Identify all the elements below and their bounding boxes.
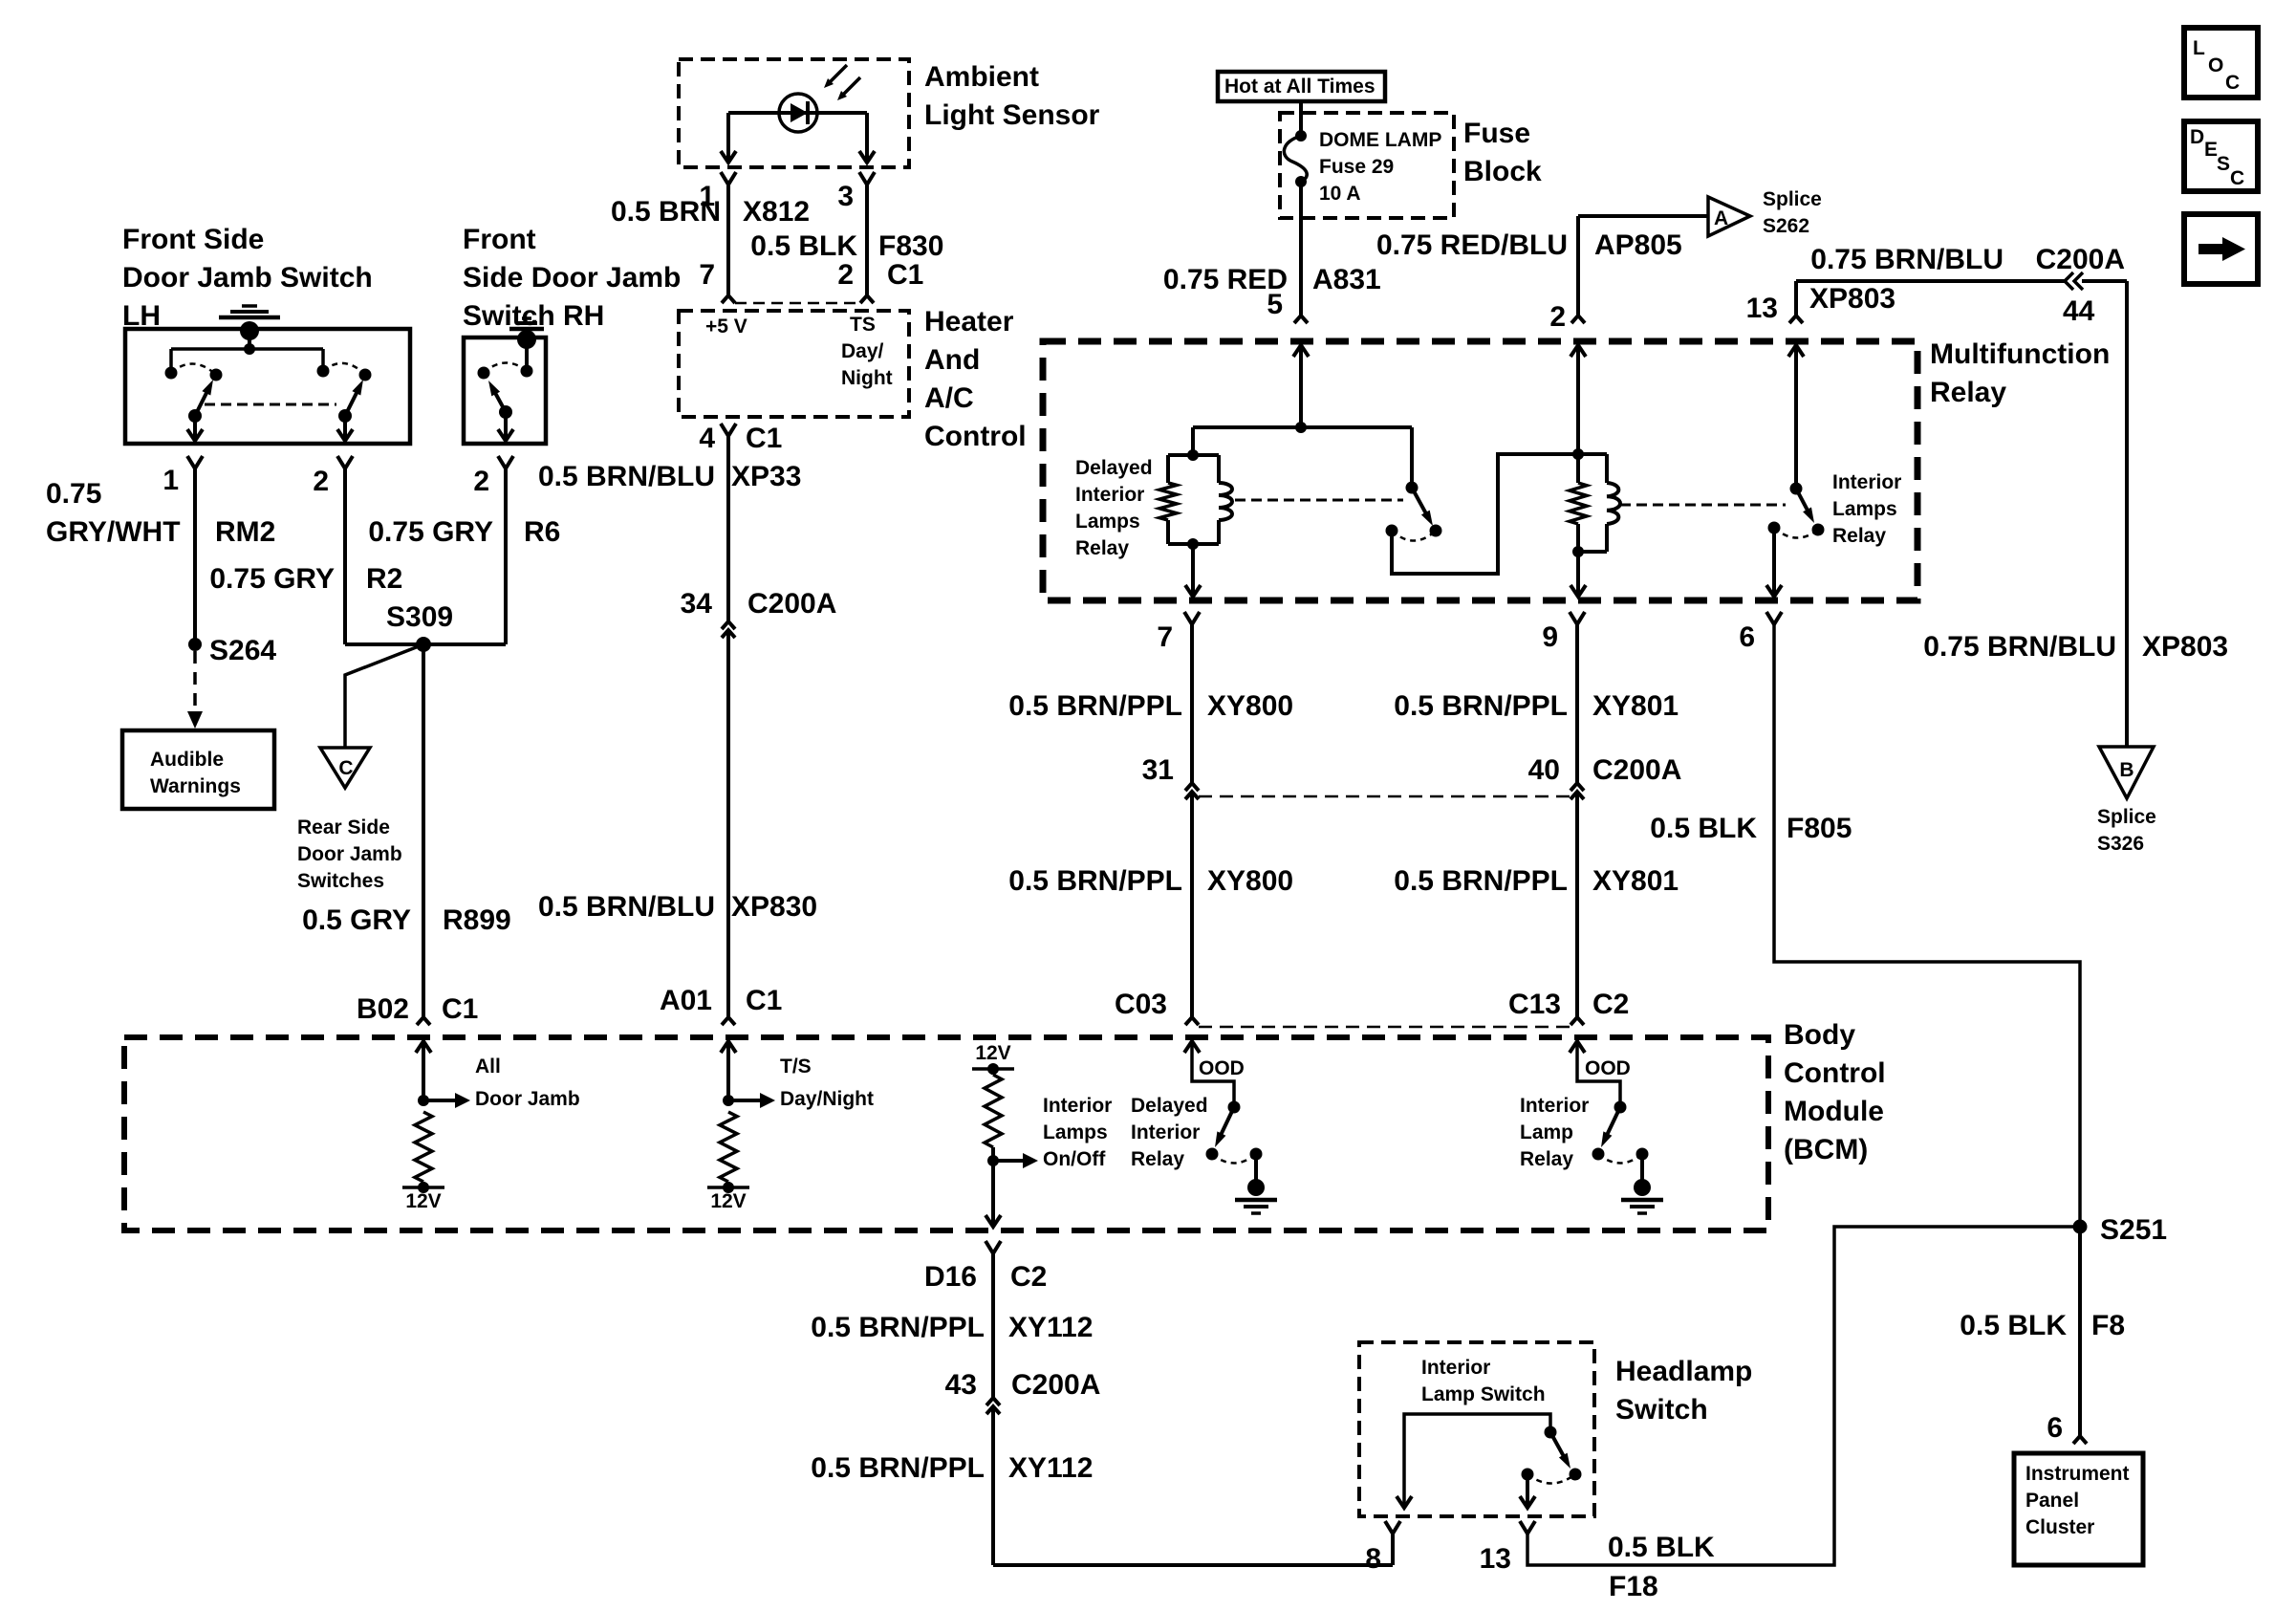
svg-text:0.5 BRN/PPL: 0.5 BRN/PPL [811,1452,985,1484]
svg-text:C200A: C200A [1011,1369,1100,1401]
svg-text:A831: A831 [1312,264,1381,295]
svg-text:C: C [2225,72,2240,94]
pin 5 arrow inside relay [1293,345,1309,357]
switch SW-K2 arm [1796,489,1809,512]
photodiode D1 [728,111,867,115]
svg-text:F8: F8 [2091,1310,2125,1341]
wire S309 bus [345,642,506,646]
svg-text:Relay: Relay [1131,1148,1184,1170]
relay K1 coil bottom wires [1166,520,1170,544]
svg-text:C1: C1 [746,985,782,1016]
wire XY801 upper [1575,624,1579,783]
svg-text:C03: C03 [1115,989,1167,1020]
resistor R-K2 [1576,454,1580,483]
node K2 feed junction [1572,448,1584,460]
svg-text:S: S [2217,153,2230,175]
switch HS throw arc [1527,1474,1575,1484]
svg-text:S264: S264 [209,635,276,666]
svg-text:0.5 BLK: 0.5 BLK [1608,1532,1715,1563]
pin C13 C2 at BCM [1570,1017,1584,1025]
wire XP830 [726,630,730,1017]
pin A01 C1 at BCM [722,1017,735,1025]
pin D16 C2 below BCM [986,1241,1001,1253]
ground G4 inside BCM [1640,1154,1644,1183]
signal arrow Interior Lamps On/Off [993,1159,1025,1163]
svg-text:12V: 12V [710,1190,746,1212]
pin 3 sensor [859,172,875,185]
component box Multifunction Relay [1043,341,1917,600]
legend box next-page arrow [2184,214,2258,284]
svg-text:6: 6 [1739,621,1755,653]
switch OOD1 contacts [1206,1148,1219,1161]
resistor R-K1 [1159,483,1177,520]
node Interior Lamps On/Off junction [987,1155,999,1166]
svg-text:10 A: 10 A [1319,183,1361,205]
svg-text:XP803: XP803 [1809,283,1895,315]
wire sensor left leg [726,113,730,160]
svg-text:Door Jamb: Door Jamb [475,1088,580,1110]
wire to splice B [2082,279,2127,283]
switch box S_RH [464,337,546,444]
svg-text:2: 2 [1549,301,1566,333]
svg-text:A: A [1714,207,1728,229]
pin 2 LH [337,456,353,468]
internal 12V source B02 [402,1186,444,1189]
off-page triangle C [320,748,370,788]
switch SW-RH contacts [521,365,533,378]
svg-text:0.5 GRY: 0.5 GRY [302,904,411,936]
pin 2 arrow inside relay [1570,345,1586,357]
svg-text:0.75: 0.75 [46,478,101,510]
switch HS pivot [1545,1426,1557,1439]
svg-text:F18: F18 [1609,1571,1658,1602]
switch HS contacts [1570,1469,1582,1481]
wire F18 [1527,1227,2073,1565]
svg-text:Heater: Heater [924,306,1014,337]
light arrows into photodiode [828,65,847,84]
switch HS output wire [1526,1474,1529,1505]
component box Heater And A/C Control [679,311,909,417]
svg-text:+5 V: +5 V [705,316,747,337]
pin 6 instrument panel cluster [2073,1436,2087,1444]
svg-text:Interior: Interior [1075,484,1144,506]
wire XY800 upper [1190,624,1194,783]
pin 7 heater [722,295,735,303]
svg-text:Light Sensor: Light Sensor [924,99,1100,131]
svg-text:XY800: XY800 [1207,865,1293,897]
component box Ambient Light Sensor [679,59,909,167]
pin 13 at relay [1789,316,1803,323]
wire XY112 lower [991,1406,995,1565]
svg-text:Night: Night [841,367,893,389]
svg-text:C1: C1 [746,423,782,454]
svg-text:Block: Block [1463,156,1542,187]
node A01 junction [723,1095,734,1106]
svg-text:Hot at All Times: Hot at All Times [1224,76,1375,98]
switch OOD2 contacts [1592,1148,1605,1161]
internal 12V source A01 [707,1186,749,1189]
coil K2 Interior Lamps Relay [1578,452,1607,456]
svg-text:0.5 BRN/PPL: 0.5 BRN/PPL [1394,865,1568,897]
svg-text:XY800: XY800 [1207,690,1293,722]
wire RH ground stub [525,339,529,371]
svg-text:Body: Body [1784,1019,1855,1051]
svg-text:Front Side: Front Side [122,224,264,255]
svg-text:A/C: A/C [924,382,974,414]
component box Headlamp Switch [1359,1342,1594,1516]
pin 1 LH [187,456,203,468]
svg-text:0.5 BRN/PPL: 0.5 BRN/PPL [1008,865,1182,897]
wire SW-K1 common to K2 feed [1392,454,1576,574]
wire XY112 upper [991,1253,995,1398]
wire F8 to instrument cluster [2078,1227,2082,1436]
svg-text:13: 13 [1480,1543,1511,1575]
wire XY801 lower [1575,792,1579,1017]
svg-text:0.5 BLK: 0.5 BLK [1960,1310,2067,1341]
svg-text:12V: 12V [405,1190,441,1212]
svg-text:S251: S251 [2100,1214,2167,1246]
svg-text:Lamp Switch: Lamp Switch [1421,1383,1546,1405]
svg-text:OOD: OOD [1585,1057,1631,1079]
svg-text:C: C [338,757,353,779]
switch OOD1 pivot [1228,1101,1241,1114]
switch SW-LH2 pole wire [343,416,347,438]
svg-text:2: 2 [313,466,329,497]
svg-text:9: 9 [1542,621,1558,653]
svg-text:C13: C13 [1508,989,1561,1020]
component box Body Control Module BCM [124,1037,1768,1230]
switch OOD2 arm [1607,1107,1621,1136]
svg-text:Rear Side: Rear Side [297,816,390,838]
svg-text:XY801: XY801 [1592,690,1679,722]
svg-text:Interior: Interior [1421,1357,1490,1379]
wire F805 [1774,624,2080,1227]
svg-text:Splice: Splice [1763,188,1822,210]
svg-text:Day/Night: Day/Night [780,1088,874,1110]
svg-text:0.5 BLK: 0.5 BLK [750,230,857,262]
switch SW-K2 contacts [1812,524,1825,536]
svg-text:R2: R2 [366,563,402,595]
wire F830 right [865,185,869,295]
svg-text:DOME LAMP: DOME LAMP [1319,129,1441,151]
coil K1 Delayed Interior Lamps Relay [1219,483,1232,520]
relay K1 coil branch wires [1191,427,1195,455]
svg-text:Lamps: Lamps [1832,498,1897,520]
svg-text:0.75 GRY: 0.75 GRY [368,516,493,548]
svg-text:F830: F830 [878,230,943,262]
svg-text:0.75 BRN/BLU: 0.75 BRN/BLU [1810,244,2004,275]
pin 5 at relay [1294,316,1308,323]
svg-text:Interior: Interior [1520,1095,1589,1117]
svg-text:2: 2 [837,259,854,291]
splice S264 [188,638,202,651]
svg-text:XY112: XY112 [1008,1312,1093,1343]
legend box DESC [2184,121,2258,191]
connector 43 C200A [986,1398,1000,1405]
svg-text:Relay: Relay [1930,377,2006,408]
connector dashed link C03-C13 [1199,1026,1570,1029]
svg-text:Door Jamb Switch: Door Jamb Switch [122,262,373,294]
wire sensor right leg [865,113,869,160]
svg-text:XP803: XP803 [2142,631,2228,663]
wire R6 from RH pin 2 [504,468,508,644]
switch SW-K1 throw arc [1392,531,1436,541]
wire A831 fuse to relay pin 5 [1299,182,1303,316]
connector 31 C200A [1185,783,1199,791]
switch SW-K1 contacts [1430,525,1442,537]
pin 9 below relay [1570,612,1585,624]
actuator dashed link K1 [1235,499,1403,502]
switch SW-LH1 arm [188,409,202,423]
svg-text:5: 5 [1267,289,1283,320]
svg-text:R899: R899 [443,904,511,936]
off-page triangle A [1708,197,1750,236]
svg-text:0.5 BRN/BLU: 0.5 BRN/BLU [538,891,715,923]
ground G2 on RH switch box [517,330,536,349]
svg-text:31: 31 [1142,754,1174,786]
svg-text:RM2: RM2 [215,516,275,548]
connector 34 C200A [722,621,735,629]
svg-text:O: O [2208,54,2223,76]
svg-text:Control: Control [924,421,1027,452]
svg-text:(BCM): (BCM) [1784,1134,1868,1165]
svg-text:8: 8 [1365,1543,1381,1575]
pin 13 below headlamp switch [1520,1521,1535,1534]
connector dashed link 31-40 [1199,795,1570,798]
pin 2 at relay [1571,316,1585,323]
svg-text:Switches: Switches [297,870,384,892]
svg-text:7: 7 [1157,621,1173,653]
switch OOD1 arm [1221,1107,1235,1136]
svg-text:34: 34 [681,588,713,620]
svg-text:0.5 BRN/PPL: 0.5 BRN/PPL [1394,690,1568,722]
switch SW-K1 pivot [1406,482,1419,494]
node relay feed junction [1295,422,1307,433]
svg-text:Instrument: Instrument [2025,1463,2130,1485]
switch SW-K2 pivot [1790,483,1803,495]
ground G1 on LH switch box [240,321,259,340]
svg-text:X812: X812 [743,196,810,228]
pin 4 C1 below heater [721,424,736,436]
svg-text:AP805: AP805 [1594,229,1682,261]
svg-text:3: 3 [837,181,854,212]
switch OOD1 throw arc [1212,1154,1256,1164]
svg-text:E: E [2204,139,2218,161]
svg-text:Interior: Interior [1043,1095,1112,1117]
pin A01 arrow inside BCM [721,1041,736,1053]
off-page triangle B [2099,747,2154,798]
svg-text:Fuse: Fuse [1463,118,1530,149]
pin 8 below headlamp switch [1385,1521,1400,1534]
switch SW-K2 throw arc [1774,528,1818,538]
svg-text:R6: R6 [524,516,560,548]
svg-text:D16: D16 [924,1261,977,1293]
svg-text:Delayed: Delayed [1131,1095,1208,1117]
pin B02 arrow inside BCM [416,1041,431,1053]
svg-text:Lamps: Lamps [1043,1121,1108,1143]
svg-text:Cluster: Cluster [2025,1516,2094,1538]
connector C200A 44 inline [2065,272,2073,290]
signal arrow T/S Day/Night [728,1099,762,1102]
svg-text:D: D [2190,126,2204,148]
power tag Hot at All Times [1218,72,1385,101]
svg-text:7: 7 [699,259,715,291]
svg-text:2: 2 [473,466,489,497]
svg-text:Multifunction: Multifunction [1930,338,2110,370]
svg-text:XY112: XY112 [1008,1452,1093,1484]
component box Fuse Block [1280,113,1454,218]
svg-text:Headlamp: Headlamp [1615,1356,1752,1387]
connector line C1 at heater [735,302,860,305]
wire RM2 from LH pin 1 [193,468,197,644]
switch SW-RH pole wire [504,412,508,438]
svg-text:C200A: C200A [1592,754,1681,786]
wire R2 from LH pin 2 [343,468,347,644]
svg-text:0.75 RED/BLU: 0.75 RED/BLU [1376,229,1568,261]
svg-text:0.5 BLK: 0.5 BLK [1650,813,1757,844]
svg-text:XP830: XP830 [731,891,817,923]
svg-text:XY801: XY801 [1592,865,1679,897]
svg-text:Warnings: Warnings [150,775,241,797]
splice S309 [416,637,431,652]
svg-text:A01: A01 [660,985,712,1016]
wire AP805 [1576,216,1580,316]
switch box S_LH [125,329,410,444]
wire XY800 lower [1190,792,1194,1017]
svg-text:GRY/WHT: GRY/WHT [46,516,181,548]
signal arrow All Door Jamb [423,1099,457,1102]
pin C03 arrow inside BCM [1184,1041,1200,1053]
switch SW-LH1 contacts [165,367,178,380]
svg-text:C1: C1 [887,259,923,291]
svg-text:Relay: Relay [1520,1148,1573,1170]
svg-text:Fuse 29: Fuse 29 [1319,156,1394,178]
svg-text:S262: S262 [1763,215,1809,237]
svg-text:4: 4 [699,423,715,454]
svg-text:B02: B02 [357,993,409,1025]
switch OOD2 input wire [1577,1041,1620,1107]
resistor BCM-R1 [415,1112,432,1182]
wire SW-K2 to pin 6 [1772,528,1776,594]
svg-text:Door Jamb: Door Jamb [297,843,402,865]
svg-text:L: L [2193,37,2205,59]
svg-text:Side Door Jamb: Side Door Jamb [463,262,681,294]
svg-text:0.5 BRN/PPL: 0.5 BRN/PPL [811,1312,985,1343]
svg-text:Splice: Splice [2097,806,2156,828]
switch OOD2 throw arc [1598,1154,1642,1164]
svg-text:Lamps: Lamps [1075,511,1140,533]
pin C13 arrow inside BCM [1570,1041,1585,1053]
svg-text:Delayed: Delayed [1075,457,1153,479]
pin 13 arrow inside relay [1788,345,1804,357]
svg-text:C: C [2230,167,2244,189]
switch OOD1 input wire [1192,1041,1234,1107]
node B02 junction [418,1095,429,1106]
svg-text:TS: TS [850,314,876,336]
svg-text:Control: Control [1784,1057,1886,1089]
splice S251 [2073,1220,2088,1234]
wire R899 S309 to BCM B02 [422,644,425,1017]
svg-text:Interior: Interior [1832,471,1901,493]
svg-text:Ambient: Ambient [924,61,1039,93]
svg-text:C2: C2 [1010,1261,1047,1293]
svg-text:And: And [924,344,980,376]
svg-text:Day/: Day/ [841,340,884,362]
switch SW-LH1 pole wire [193,416,197,438]
switch SW-RH throw arc [484,362,527,373]
svg-text:Panel: Panel [2025,1490,2079,1512]
legend box LOC [2184,28,2258,98]
svg-text:0.5 BRN: 0.5 BRN [611,196,721,228]
switch OOD2 pivot [1614,1101,1627,1114]
svg-text:0.5 BRN/BLU: 0.5 BRN/BLU [538,461,715,492]
switch HS internal wire [1404,1414,1550,1505]
svg-text:44: 44 [2063,295,2095,327]
wire X812 left [726,185,730,295]
svg-text:13: 13 [1746,293,1778,324]
pin C03 at BCM [1185,1017,1199,1025]
actuator dashed link K2 [1620,504,1786,507]
wire to headlamp switch pin 8 [993,1563,1393,1567]
mechanical link LH ganged switches [205,403,336,406]
switch SW-K1 arm [1412,488,1427,515]
fuse F29 DOME LAMP 10A [1295,130,1307,142]
svg-text:40: 40 [1528,754,1560,786]
pin 2 C1 heater [860,295,874,303]
connector 40 C200A [1570,783,1584,791]
box Audible Warnings [122,730,274,809]
svg-text:C2: C2 [1592,989,1629,1020]
svg-text:T/S: T/S [780,1056,812,1078]
svg-text:C200A: C200A [747,588,836,620]
pin 2 RH [498,456,513,468]
svg-text:XP33: XP33 [731,461,801,492]
svg-text:0.5 BRN/PPL: 0.5 BRN/PPL [1008,690,1182,722]
svg-text:Relay: Relay [1832,525,1886,547]
svg-text:F805: F805 [1787,813,1852,844]
svg-text:C1: C1 [442,993,478,1025]
resistor BCM-R2 [720,1112,737,1182]
svg-text:43: 43 [945,1369,977,1401]
wire to rear door jamb switches [345,644,423,748]
switch SW-LH2 contacts [317,365,330,378]
switch SW-LH1 throw arc [171,363,216,375]
svg-text:Lamp: Lamp [1520,1121,1573,1143]
switch SW-RH arm [499,405,512,419]
svg-text:1: 1 [162,465,179,496]
wire K1 coil to pin 7 [1191,544,1195,594]
svg-text:Relay: Relay [1075,537,1129,559]
svg-text:B: B [2119,759,2134,781]
svg-text:S326: S326 [2097,833,2144,855]
svg-text:Front: Front [463,224,536,255]
wire XP803 top run [1794,281,1798,316]
pin 1 sensor [721,172,736,185]
svg-text:6: 6 [2047,1412,2063,1444]
ground G3 inside BCM [1254,1154,1258,1183]
svg-text:12V: 12V [975,1042,1010,1064]
svg-text:All: All [475,1056,501,1078]
pin B02 C1 at BCM [417,1017,430,1025]
svg-text:Module: Module [1784,1096,1884,1127]
svg-text:0.75 BRN/BLU: 0.75 BRN/BLU [1923,631,2116,663]
box Instrument Panel Cluster [2014,1453,2143,1565]
wire into fuse [1299,101,1303,136]
wire to D16 [991,1161,995,1224]
wire K2 coil to pin 9 [1576,552,1580,594]
switch SW-LH2 arm [338,409,352,423]
svg-text:Audible: Audible [150,749,224,771]
